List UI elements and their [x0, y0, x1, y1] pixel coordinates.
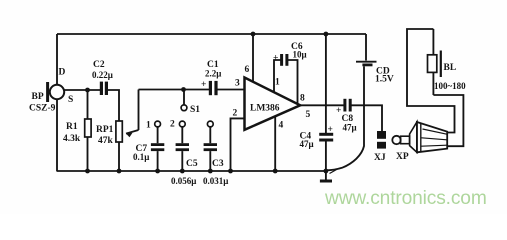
wire BL loop left — [407, 29, 455, 133]
capacitor C1 — [210, 81, 216, 95]
wire top V+ rail — [57, 33, 366, 35]
switch contact 2 — [179, 121, 185, 127]
svg-text:2.2μ: 2.2μ — [205, 69, 221, 79]
node mic output junction — [85, 88, 90, 93]
svg-text:47μ: 47μ — [343, 123, 357, 133]
svg-text:3: 3 — [235, 79, 240, 89]
wire tick near ground — [330, 169, 338, 174]
capacitor C2 — [101, 82, 106, 95]
pin 2 wire — [231, 118, 245, 171]
svg-text:1.5V: 1.5V — [375, 75, 394, 85]
svg-text:1: 1 — [146, 121, 151, 131]
svg-text:C2: C2 — [93, 60, 105, 70]
svg-text:S: S — [68, 95, 73, 105]
pin 6 wire — [252, 34, 254, 82]
switch contact 3 — [207, 121, 213, 127]
node R1 ground junction — [85, 169, 90, 174]
wire C2 to RP1 top — [107, 90, 119, 121]
plug XP — [392, 122, 447, 152]
pin 4 wire — [274, 117, 276, 171]
wire C1 to pin3 — [217, 89, 245, 91]
svg-text:C3: C3 — [212, 159, 224, 169]
svg-text:5: 5 — [306, 110, 311, 120]
svg-text:BP: BP — [32, 92, 44, 102]
svg-text:47k: 47k — [98, 136, 114, 146]
capacitor C6 — [282, 54, 287, 66]
svg-text:100~180: 100~180 — [434, 81, 466, 91]
svg-text:D: D — [59, 68, 66, 78]
svg-text:6: 6 — [245, 65, 250, 75]
svg-text:47μ: 47μ — [300, 139, 314, 149]
potentiometer RP1 — [116, 90, 139, 172]
capacitor C8 — [345, 99, 350, 112]
pin 1 wire — [274, 60, 281, 92]
svg-text:BL: BL — [444, 63, 457, 73]
node pin2 ground junction — [228, 169, 233, 174]
svg-text:0.031μ: 0.031μ — [203, 176, 228, 186]
wire C8 to XJ — [351, 105, 382, 131]
battery CD — [327, 34, 377, 170]
svg-text:1: 1 — [275, 78, 280, 88]
svg-text:4: 4 — [279, 121, 284, 131]
svg-text:0.1μ: 0.1μ — [133, 152, 149, 162]
node pin4 ground junction — [273, 169, 278, 174]
ground symbol — [320, 171, 332, 181]
resistor R1 — [85, 90, 91, 171]
svg-text:2: 2 — [233, 109, 238, 119]
svg-text:0.22μ: 0.22μ — [92, 70, 113, 80]
svg-text:10μ: 10μ — [293, 50, 307, 60]
capacitor C4 — [319, 134, 333, 171]
op-amp U1 LM386 — [245, 78, 301, 130]
svg-text:RP1: RP1 — [96, 125, 114, 135]
svg-text:+: + — [273, 54, 278, 64]
svg-text:8: 8 — [300, 94, 305, 104]
switch S1 pole — [181, 90, 187, 111]
node C4 rail junction — [324, 32, 329, 37]
svg-text:2: 2 — [170, 120, 175, 130]
svg-text:R1: R1 — [66, 122, 78, 132]
svg-text:+: + — [201, 80, 206, 90]
pin 8 wire — [288, 60, 298, 104]
wire signal line to C1 — [139, 89, 210, 91]
node C5 ground junction — [180, 169, 185, 174]
node S1 junction — [181, 87, 186, 92]
switch contact 1 — [155, 121, 161, 127]
node C7 ground junction — [155, 169, 160, 174]
svg-text:www.cntronics.com: www.cntronics.com — [324, 188, 487, 209]
wire C4 branch from V+ rail — [325, 34, 327, 133]
node C4 ground junction — [324, 169, 329, 174]
node pin6 rail junction — [251, 32, 256, 37]
svg-text:CSZ-9: CSZ-9 — [29, 104, 56, 114]
connector XJ — [377, 131, 386, 149]
node C3 ground junction — [208, 169, 213, 174]
node RP1 ground junction — [117, 169, 122, 174]
svg-text:LM386: LM386 — [250, 104, 280, 114]
svg-text:0.056μ: 0.056μ — [171, 176, 196, 186]
capacitor C5 — [176, 127, 189, 171]
microphone BP CSZ-9 — [48, 34, 100, 171]
wire bottom ground rail — [57, 170, 327, 172]
wire BL loop right to XP sleeve — [433, 95, 463, 146]
svg-text:C5: C5 — [186, 159, 198, 169]
svg-text:4.3k: 4.3k — [63, 134, 81, 144]
svg-text:+: + — [328, 125, 333, 135]
capacitor C7 — [151, 127, 164, 171]
wire output pin5 — [300, 104, 344, 106]
speaker BL — [428, 29, 441, 95]
svg-text:XJ: XJ — [374, 153, 386, 163]
svg-text:S1: S1 — [190, 105, 200, 115]
svg-text:XP: XP — [396, 152, 409, 162]
capacitor C3 — [204, 127, 217, 171]
